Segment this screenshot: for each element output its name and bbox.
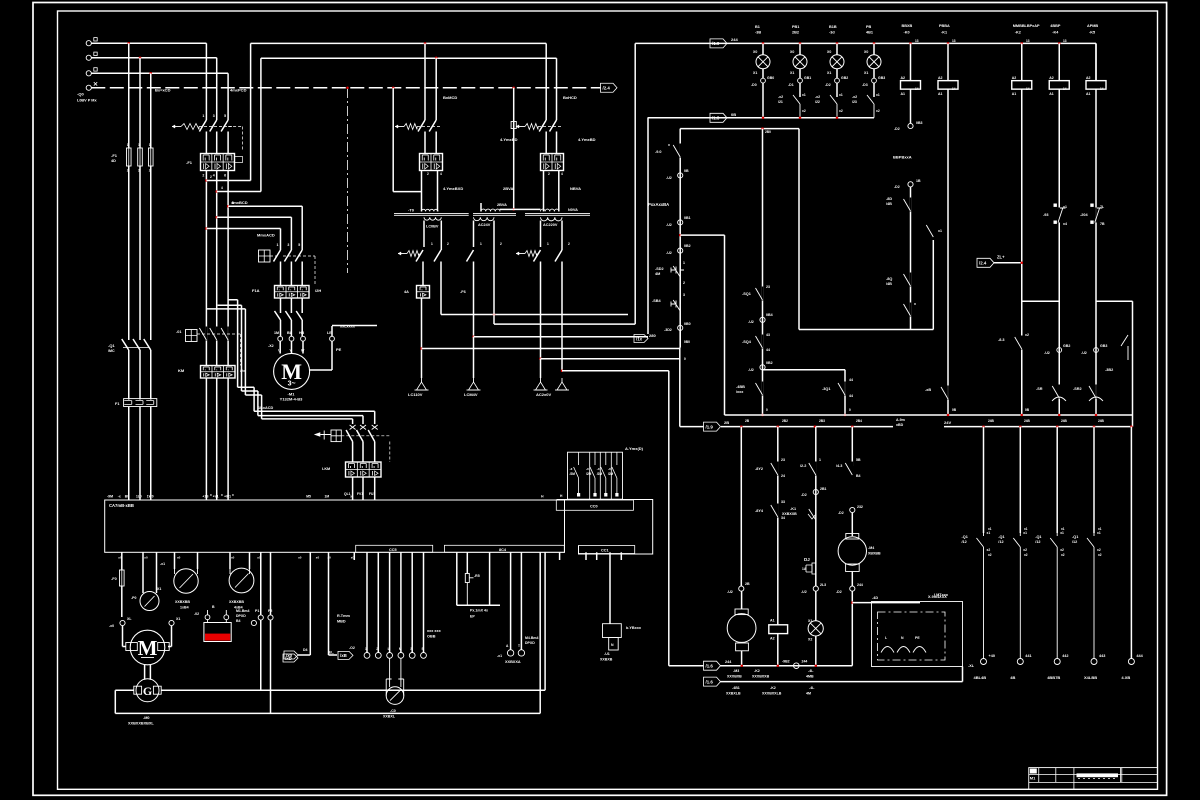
svg-text:44: 44: [849, 394, 853, 398]
svg-text:N0VA: N0VA: [568, 208, 578, 212]
wire N to T1 primary: [393, 191, 421, 193]
ground T2: [473, 378, 475, 382]
svg-text:2L3: 2L3: [820, 583, 826, 587]
terminal lamp 1: [762, 69, 764, 78]
svg-text:1M: 1M: [274, 331, 279, 335]
flag /1.6 a: [704, 661, 721, 670]
node N drop 1: [346, 87, 349, 90]
breaker QF1 pole 2: [210, 120, 217, 154]
wire below fuse 1: [128, 166, 130, 337]
svg-text:-02: -02: [194, 612, 199, 616]
wire L3 phase: [91, 72, 228, 74]
svg-text:XXXBXXB: XXXBXXB: [752, 675, 770, 679]
node lamp tap 1: [762, 42, 765, 45]
svg-text:4B: 4B: [1010, 675, 1015, 680]
node bus415 a: [761, 414, 764, 417]
contact bottom 845: [844, 382, 846, 396]
meter B: [229, 568, 254, 593]
svg-text:-4L: -4L: [809, 686, 815, 690]
fan motor YB: [735, 609, 748, 615]
corner bus to coil 5: [1095, 43, 1097, 80]
svg-text:4BL4B: 4BL4B: [974, 675, 987, 680]
contactor KM1 pole 1: [274, 247, 281, 286]
svg-text:-R5: -R5: [474, 574, 480, 578]
svg-text:I-KM: I-KM: [322, 467, 330, 471]
wire FR1 out 2: [290, 298, 292, 310]
svg-text:4A: 4A: [404, 290, 409, 294]
wire L1 phase: [91, 42, 206, 44]
svg-text:2B3: 2B3: [819, 419, 825, 423]
svg-text:-K2: -K2: [754, 669, 760, 673]
svg-text:x0: x0: [118, 556, 122, 560]
svg-text:ZL+: ZL+: [997, 255, 1005, 260]
block contact 2: [590, 452, 595, 493]
solenoid feed: [609, 552, 611, 623]
svg-text:A.Ymx(D): A.Ymx(D): [625, 446, 644, 451]
svg-text:/1.6: /1.6: [706, 664, 714, 669]
svg-text:X0: X0: [790, 50, 794, 54]
svg-text:14: 14: [1026, 87, 1030, 91]
svg-text:XXBXXB: XXBXXB: [782, 512, 797, 516]
svg-text:/2M: /2M: [570, 472, 576, 476]
block contact 1: [574, 452, 579, 493]
wire plc to terminal 2: [377, 552, 379, 652]
svg-text:244: 244: [725, 660, 732, 664]
svg-text:/2.2: /2.2: [800, 464, 806, 468]
svg-text:4: 4: [440, 172, 442, 176]
svg-text:CC5: CC5: [389, 548, 397, 552]
svg-text:4D: 4D: [111, 159, 116, 163]
right pair terminals: [510, 552, 512, 649]
transformer T1 primary coil: [422, 209, 439, 211]
ladder column 762: [762, 129, 764, 415]
terminal M left: [120, 620, 125, 625]
svg-text:A2: A2: [938, 76, 943, 80]
node 0V c: [815, 664, 818, 667]
svg-text:A2: A2: [770, 637, 775, 641]
node N drop 3: [512, 87, 515, 90]
svg-text:FV1: FV1: [357, 492, 363, 496]
svg-text:-Q1: -Q1: [1035, 535, 1041, 539]
node QF1 tap B upper: [215, 190, 218, 193]
svg-text:443: 443: [1099, 654, 1105, 658]
wire branch to 845: [763, 369, 846, 371]
wire dc motor down: [851, 572, 853, 587]
breaker QF2 actuator: [395, 126, 404, 128]
svg-text:-O2: -O2: [349, 646, 355, 650]
svg-text:-x1: -x1: [160, 562, 165, 566]
wire to aux riser: [680, 234, 724, 236]
plc sub box CC1: [579, 546, 635, 554]
KM3 linkage: [389, 442, 391, 463]
svg-text:PE: PE: [915, 636, 920, 640]
node 24V d: [851, 425, 854, 428]
transformer T1 secondary coil: [424, 217, 441, 220]
svg-text:1: 1: [365, 647, 367, 651]
svg-text:-F0: -F0: [111, 577, 117, 581]
svg-text:0: 0: [766, 408, 768, 412]
svg-text:XXXBXB: XXXBXB: [727, 675, 742, 679]
svg-text:x1: x1: [1023, 531, 1027, 535]
svg-text:M: M: [399, 647, 402, 651]
svg-text:LCM4V: LCM4V: [464, 392, 478, 397]
node lamp return b: [799, 117, 802, 120]
wire feeder to T3 a: [545, 43, 547, 120]
svg-text:GB2: GB2: [1063, 344, 1070, 348]
contactor KM1 linkage dashed: [283, 255, 315, 257]
contactor KM3 pole 2: [357, 430, 364, 462]
svg-text:24: 24: [781, 474, 785, 478]
svg-text:442: 442: [1062, 654, 1068, 658]
transformer T1 core: [394, 212, 469, 214]
wire T1R east at 314: [441, 314, 628, 316]
svg-text:/1.6: /1.6: [706, 679, 714, 684]
connector X1 KM3: [372, 425, 378, 430]
svg-text:x: x: [668, 143, 670, 147]
svg-text:+V1: +V1: [213, 495, 219, 499]
fuse FU2: [138, 148, 143, 166]
contact coil1 col 2: [910, 270, 912, 330]
svg-text:-U2: -U2: [666, 176, 672, 180]
node ladder to aux riser: [679, 234, 682, 237]
svg-text:XXBXL: XXBXL: [383, 715, 396, 719]
bus 24V horizontal right: [944, 426, 1133, 428]
svg-text:-Q1: -Q1: [1072, 535, 1078, 539]
terminal 852 a: [850, 507, 855, 512]
svg-text:x2: x2: [987, 548, 991, 552]
svg-text:A2: A2: [1049, 76, 1054, 80]
svg-text:4: 4: [221, 186, 223, 190]
svg-text:1L0: 1L0: [136, 495, 142, 499]
node T3R tap: [561, 369, 564, 372]
node 24V tap col 4: [1093, 425, 1096, 428]
wire plc to G return a: [539, 552, 541, 713]
svg-text:QL1: QL1: [344, 492, 351, 496]
svg-text:/21: /21: [778, 100, 783, 104]
node lamp return c: [836, 117, 839, 120]
svg-text:NBVA: NBVA: [570, 186, 581, 191]
terminal M right: [169, 620, 174, 625]
breaker QF1 actuator arrow: [172, 126, 181, 128]
terminal mid 6: [421, 653, 427, 659]
node 1022 bus: [1021, 414, 1024, 417]
wire below fuse 3: [150, 166, 152, 337]
wire plc to terminal 4: [400, 552, 402, 652]
wire 933 riser: [932, 240, 934, 330]
transformer T3 secondary: [541, 217, 563, 221]
svg-text:X1: X1: [753, 71, 757, 75]
node L2 fuse tap: [139, 57, 142, 60]
svg-text:1: 1: [149, 143, 151, 147]
svg-text:-U2: -U2: [666, 251, 672, 255]
svg-text:x2: x2: [1061, 553, 1065, 557]
wire QF1 out 1: [205, 171, 207, 501]
wire coil5 down: [1095, 89, 1097, 415]
node lamp return a: [762, 117, 765, 120]
svg-text:M4.Bm4: M4.Bm4: [525, 636, 538, 640]
svg-text:X1: X1: [790, 71, 794, 75]
flag /1.9 top: [710, 39, 727, 48]
node lamp tap 4: [873, 42, 876, 45]
svg-text:x2: x2: [876, 109, 880, 113]
svg-text:4BB7B: 4BB7B: [1047, 675, 1060, 680]
pushbutton start SB4: [671, 297, 680, 325]
wire 0V to spindle box: [962, 667, 964, 682]
svg-text:44: 44: [766, 348, 770, 352]
wire QF1 feed 2: [216, 58, 218, 120]
svg-text:-K2: -K2: [1015, 31, 1021, 35]
svg-text:GB3: GB3: [878, 76, 885, 80]
svg-text:XXBXB: XXBXB: [600, 658, 613, 662]
wire T1 sec left: [423, 221, 425, 248]
flag ZL+: [977, 258, 994, 267]
wire T3L east: [541, 358, 680, 360]
svg-text:GB3: GB3: [1100, 344, 1107, 348]
svg-text:-x: -x: [586, 467, 589, 471]
svg-text:X1: X1: [808, 619, 812, 623]
node 24V a: [740, 425, 743, 428]
svg-text:-8.3: -8.3: [998, 338, 1005, 342]
svg-text:KM: KM: [178, 368, 185, 373]
svg-text:A1: A1: [938, 92, 943, 96]
stub terminals below plc: [353, 552, 355, 560]
svg-text:-K0: -K0: [904, 31, 910, 35]
plc box 2 outline: [557, 500, 653, 555]
wire lamp 1 down: [762, 83, 764, 118]
breaker QF1 linkage dashed: [199, 126, 233, 128]
indicator lamp HL3: [836, 43, 838, 54]
terminal mid 5: [409, 653, 415, 659]
svg-text:+1B: +1B: [202, 495, 209, 499]
plug contact M1 2: [285, 310, 291, 336]
terminals pair right: [251, 620, 256, 625]
svg-text:DJ: DJ: [804, 557, 810, 562]
svg-text:M: M: [138, 636, 158, 660]
svg-text:244: 244: [802, 660, 808, 664]
terminal 762 a: [760, 317, 765, 322]
wire 110V to control: [421, 298, 423, 378]
contact coil1 col: [910, 187, 912, 200]
svg-text:2B0: 2B0: [765, 130, 771, 134]
svg-text:2: 2: [568, 242, 570, 246]
timer contact 1059: [1058, 385, 1060, 399]
svg-text:43: 43: [766, 333, 770, 337]
ground T3 right: [561, 378, 563, 382]
title block marks: [1030, 769, 1037, 774]
svg-text:1M: 1M: [325, 495, 330, 499]
svg-text:-x0: -x0: [109, 624, 114, 628]
svg-text:x2: x2: [1025, 333, 1029, 337]
wire QS1 out 1: [128, 353, 130, 400]
svg-text:x1: x1: [1098, 527, 1102, 531]
plug contact M1 3: [296, 310, 302, 336]
wire N to T3 primary: [514, 208, 541, 210]
svg-text:-D2: -D2: [838, 511, 844, 515]
svg-text:XXBXXBXBXL: XXBXXBXBXL: [128, 722, 154, 726]
contact col 1022: [1021, 336, 1023, 350]
node 24V b: [777, 425, 780, 428]
terminal lamp 4: [873, 69, 875, 78]
svg-text:3: 3: [213, 114, 215, 118]
wire fuse drop 3: [150, 73, 152, 148]
svg-text:BBPBxxA: BBPBxxA: [893, 155, 912, 160]
node encoder tap: [851, 591, 853, 666]
svg-text:P1: P1: [255, 609, 259, 613]
svg-text:0B2: 0B2: [766, 361, 773, 365]
fuse FU1: [126, 148, 131, 166]
KM3 actuator arrow: [314, 432, 321, 437]
svg-text:-01: -01: [176, 330, 182, 334]
contact right ladder col 3: [1050, 533, 1057, 659]
svg-text:-Q1: -Q1: [962, 535, 968, 539]
svg-text:xxx xxx: xxx xxx: [427, 629, 442, 633]
svg-text:x2: x2: [1060, 548, 1064, 552]
wire fuse drop 2: [139, 58, 141, 148]
resistor red element: [205, 634, 230, 641]
contactor KM3 interlock box: [331, 430, 341, 442]
svg-text:-F1: -F1: [111, 153, 118, 158]
svg-text:-9M: -9M: [107, 495, 113, 499]
wire H301 b: [1096, 300, 1133, 302]
shaft M-G: [145, 664, 151, 680]
svg-text:T: T: [518, 644, 520, 648]
svg-text:x0: x0: [257, 556, 261, 560]
svg-text:-U2: -U2: [748, 320, 754, 324]
svg-text:x1: x1: [1061, 527, 1065, 531]
contact right ladder col 4: [1087, 533, 1094, 659]
contact col 852: [851, 462, 853, 476]
svg-text:AC24V: AC24V: [478, 223, 491, 227]
svg-text:G: G: [143, 684, 152, 698]
svg-text:x1: x1: [1024, 527, 1028, 531]
svg-text:2: 2: [447, 242, 449, 246]
svg-text:1B: 1B: [916, 179, 921, 183]
pushbutton stop SB2: [671, 253, 684, 297]
svg-text:-K2: -K2: [770, 686, 776, 690]
svg-text:XXBXLB: XXBXLB: [726, 692, 741, 696]
wire fuse drop 1: [128, 43, 130, 148]
svg-text:A1: A1: [770, 619, 775, 623]
thermal relay FR3 box: [346, 462, 382, 477]
svg-text:XBXBB: XBXBB: [868, 552, 881, 556]
wire T2R east at 326: [494, 323, 635, 325]
terminal 852 b: [850, 586, 855, 591]
svg-text:33: 33: [781, 500, 785, 504]
svg-text:-x2: -x2: [852, 95, 857, 99]
svg-text:1: 1: [277, 243, 279, 247]
indicator lamp HL4: [873, 43, 875, 54]
svg-text:2: 2: [427, 172, 429, 176]
svg-text:-F6: -F6: [460, 290, 466, 294]
svg-text:+W1: +W1: [224, 495, 231, 499]
wire plc to terminal 3: [389, 552, 391, 652]
transformer T3 core: [525, 212, 590, 214]
svg-text:Y132M-4-B3: Y132M-4-B3: [280, 397, 303, 402]
wire coil2 down: [947, 89, 949, 415]
contact col 815: [815, 462, 817, 476]
svg-text:2B2: 2B2: [782, 419, 788, 423]
terminal N input: [86, 85, 91, 90]
wire QS1 to box 2: [139, 407, 141, 501]
breaker QF1 spring: [181, 124, 199, 130]
wire ladder main riser: [679, 348, 681, 427]
wire column D4: [309, 552, 311, 655]
node QF1 tap D: [215, 216, 218, 219]
svg-text:-D2: -D2: [825, 83, 831, 87]
svg-text:CC0: CC0: [590, 505, 598, 509]
svg-text:2: 2: [202, 174, 204, 178]
svg-text:/2H: /2H: [315, 288, 321, 293]
svg-text:13: 13: [952, 39, 956, 43]
breaker QF4 pole 2: [550, 120, 557, 154]
transformer T3 primary coil: [541, 209, 560, 211]
svg-text:-U2: -U2: [1044, 351, 1050, 355]
svg-text:-x: -x: [608, 467, 611, 471]
svg-text:2: 2: [210, 175, 212, 179]
svg-text:0B0: 0B0: [684, 340, 690, 344]
wire KM3 staircase feed 3: [207, 309, 353, 424]
relay coil K3: [1021, 43, 1023, 80]
svg-text:BBXB: BBXB: [902, 24, 913, 28]
svg-text:x1: x1: [988, 527, 992, 531]
wire top cross: [680, 128, 799, 130]
breaker QF2 pole 2: [435, 58, 437, 120]
svg-text:3: 3: [683, 293, 685, 297]
wire right ladder col 4 upper: [1093, 427, 1095, 533]
flag /1.6 b lower: [704, 677, 721, 686]
svg-text:44: 44: [849, 378, 853, 382]
breaker QF2 box: [420, 154, 443, 171]
svg-text:PB1: PB1: [792, 25, 799, 29]
svg-text:0B2: 0B2: [684, 244, 691, 248]
svg-text:x0: x0: [351, 556, 355, 560]
svg-text:X1: X1: [176, 617, 180, 621]
contact SQ2 on column 762: [762, 335, 764, 349]
svg-text:A2: A2: [1012, 76, 1017, 80]
indicator lamp HL2: [799, 43, 801, 54]
spindle unit outer box: [872, 602, 963, 667]
contact on 933: [932, 224, 934, 238]
svg-text:-F1: -F1: [186, 160, 193, 165]
contact col 1096 top: [1095, 208, 1097, 223]
svg-text:-93: -93: [1043, 213, 1049, 217]
ground T1: [421, 378, 423, 382]
svg-text:-K5: -K5: [1089, 31, 1095, 35]
wire QS1 out 2: [139, 353, 141, 400]
svg-text:-204: -204: [1080, 213, 1088, 217]
contactor KM3 pole 1: [368, 430, 375, 462]
switch box QS1: [124, 399, 157, 407]
svg-text:A.9m: A.9m: [896, 418, 905, 422]
svg-text:1: 1: [480, 242, 482, 246]
CR meter cup: [386, 658, 404, 695]
svg-text:-x1: -x1: [497, 654, 502, 658]
wire 110V east: [422, 348, 680, 350]
svg-text:/1x: /1x: [636, 336, 643, 341]
svg-text:1: 1: [202, 114, 204, 118]
wire T3L ground: [540, 359, 542, 378]
svg-text:B1: B1: [755, 25, 760, 29]
wire N drop to T1 primary: [392, 88, 394, 192]
svg-text:AC2x0V: AC2x0V: [536, 392, 551, 397]
contact col 1059 top: [1058, 208, 1060, 223]
svg-text:0B: 0B: [1025, 408, 1030, 412]
wire east bus riser: [634, 43, 636, 324]
contact col 1128: [1121, 335, 1128, 360]
terminal PE: [330, 336, 335, 341]
switch QS1 pole 3: [144, 337, 151, 353]
svg-text:0: 0: [849, 408, 851, 412]
